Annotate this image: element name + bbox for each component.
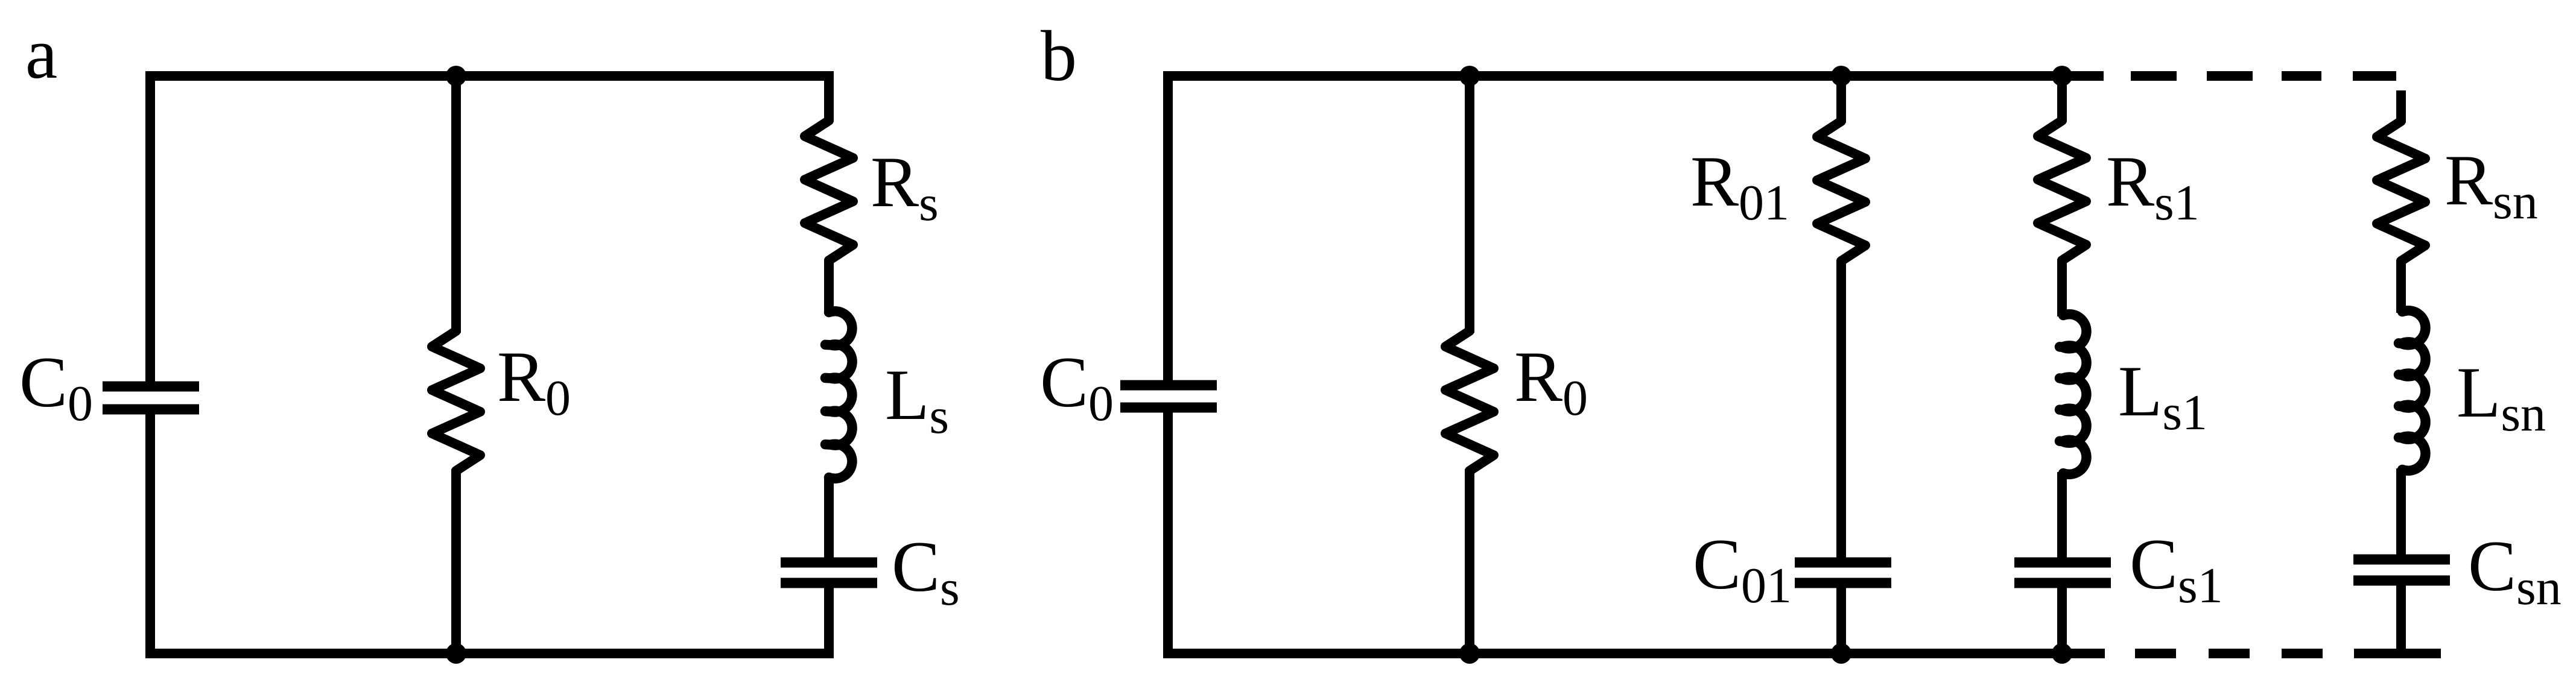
wire a right branch Rs-Ls <box>824 259 834 313</box>
resistor R0 (b) <box>1445 331 1494 471</box>
wire b Rs1 branch lower <box>2057 583 2067 653</box>
resistor Rs1 <box>2038 121 2086 260</box>
inductor Lsn <box>2399 310 2426 471</box>
wire b R0 branch lower <box>1465 469 1474 653</box>
wire b left branch upper <box>1163 71 1173 385</box>
wire b R0 branch upper <box>1465 76 1474 333</box>
wire b Rsn branch lower <box>2396 581 2406 658</box>
wire b R01 branch lower <box>1836 583 1846 653</box>
wire b top rail dash 2 <box>2207 71 2253 81</box>
wire b R01 branch middle <box>1836 260 1846 562</box>
wire a middle branch lower <box>451 469 461 653</box>
resistor R0 (a) <box>432 331 480 471</box>
wire b bottom rail dash 3 <box>2282 649 2323 658</box>
wire b Rsn branch stub <box>2396 90 2406 122</box>
wire b Rsn branch Lsn-Csn <box>2396 468 2406 559</box>
wire b bottom rail solid <box>1163 649 2105 658</box>
capacitor C01 <box>1795 558 1891 568</box>
wire b Rsn branch Rsn-Lsn <box>2396 260 2406 313</box>
capacitor Cs <box>781 558 877 568</box>
node junction b R0 bottom <box>1459 643 1480 664</box>
wire b left branch lower <box>1163 408 1173 658</box>
wire a left branch upper <box>145 71 155 386</box>
wire b R01 branch upper <box>1836 76 1846 122</box>
wire a middle branch upper <box>451 76 461 333</box>
capacitor Csn <box>2353 555 2450 565</box>
node junction b Rs1 bottom <box>2052 643 2072 664</box>
capacitor C0 (a) <box>103 382 199 392</box>
wire b top rail solid <box>1163 71 2104 81</box>
capacitor Cs1 <box>2014 558 2111 568</box>
wire a right branch Ls-Cs <box>824 476 834 562</box>
wire b bottom rail right solid <box>2354 649 2441 658</box>
svg-text:a: a <box>25 13 57 93</box>
resistor Rs <box>805 121 853 260</box>
node junction b R01 bottom <box>1831 643 1851 664</box>
wire b bottom rail dash 2 <box>2209 649 2250 658</box>
node junction b R0 top <box>1459 66 1480 86</box>
wire a left branch lower <box>145 409 155 658</box>
capacitor C0 (b) <box>1120 380 1217 391</box>
resistor R01 <box>1817 121 1865 261</box>
inductor Ls1 <box>2060 314 2087 474</box>
wire b Rs1 branch Rs1-Ls1 <box>2057 259 2067 316</box>
resistor Rsn <box>2377 121 2425 261</box>
svg-text:b: b <box>1041 16 1077 96</box>
node junction b Rs1 top <box>2052 66 2072 86</box>
node junction a bottom <box>446 643 466 664</box>
wire a top rail <box>145 71 834 81</box>
wire b bottom rail dash 1 <box>2135 649 2176 658</box>
wire a bottom rail <box>145 649 834 658</box>
node junction b R01 top <box>1831 66 1851 86</box>
wire b top rail dash 3 <box>2282 71 2321 81</box>
node junction a top <box>446 66 466 86</box>
wire b Rs1 branch Ls1-Cs1 <box>2057 472 2067 562</box>
wire b top rail dash 1 <box>2131 71 2177 81</box>
wire b Rs1 branch upper <box>2057 76 2067 122</box>
wire b top rail dash 4 <box>2353 71 2396 81</box>
wire a right branch top <box>824 71 834 122</box>
wire a right branch bottom <box>824 583 834 658</box>
inductor Ls <box>825 311 852 479</box>
